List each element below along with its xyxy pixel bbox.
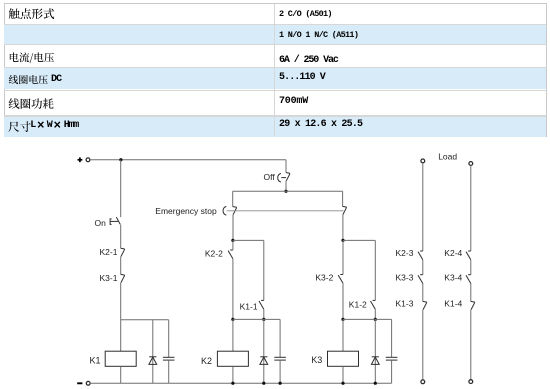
node K3 diode rail junction <box>374 382 377 385</box>
wire K2 bypass top <box>233 240 264 300</box>
wire K1 cap branch lower <box>168 360 170 383</box>
coil K1 <box>105 351 136 366</box>
wire estop right drop <box>342 191 344 206</box>
contact K2-4 <box>466 251 471 260</box>
label Off <box>264 172 276 182</box>
load terminal bottom-left <box>421 380 425 384</box>
capacitor C2 <box>274 357 286 360</box>
table column divider <box>274 4 275 136</box>
contact K2-3 <box>418 251 423 260</box>
load terminal top-right <box>469 162 473 166</box>
label K3-3 <box>396 272 414 282</box>
diode D1 <box>149 357 157 365</box>
label On <box>95 218 107 228</box>
node K2 cap rail junction <box>279 382 282 385</box>
wire coil K2 to rail <box>232 366 234 383</box>
svg-text:K2: K2 <box>201 356 212 366</box>
wire Off drop <box>285 160 287 173</box>
wire estop left lower <box>232 215 234 241</box>
label K1-4 <box>444 299 462 309</box>
node K2 snubber junction <box>231 318 234 321</box>
svg-text:K2-2: K2-2 <box>205 249 223 259</box>
svg-text:K1-3: K1-3 <box>396 299 414 309</box>
label Emergency stop <box>155 206 217 216</box>
wire K2 coil upper <box>232 240 234 351</box>
label K2-2 <box>205 249 223 259</box>
svg-text:Load: Load <box>438 151 457 161</box>
node K1-1 junction <box>262 318 265 321</box>
diode D3 <box>371 357 379 365</box>
svg-text:Off: Off <box>264 172 276 182</box>
contact K1-1 <box>259 300 264 309</box>
svg-text:K1-2: K1-2 <box>349 300 367 310</box>
wire K2 snubber branch <box>233 318 280 320</box>
wire K2 cap branch upper <box>279 319 281 357</box>
contact emergency stop right pole <box>343 206 347 214</box>
pushbutton On <box>110 217 120 224</box>
wire K2 diode branch <box>263 319 265 383</box>
label K2-3 <box>396 248 414 258</box>
label K2-1 <box>100 247 118 257</box>
wire On to K2-1 <box>120 224 122 248</box>
node top-left junction <box>119 158 122 161</box>
label K3-2 <box>315 273 333 283</box>
wire K2-2 lower <box>232 259 234 320</box>
svg-text:Emergency stop: Emergency stop <box>155 206 217 216</box>
contact K3-3 <box>418 275 423 284</box>
node K2 top junction <box>231 239 234 242</box>
wire K2-4 to K3-4 <box>470 260 472 275</box>
estop actuator link <box>223 206 343 215</box>
contact K2-1 <box>121 248 125 256</box>
contact K3-4 <box>466 275 471 284</box>
contact K1-2 <box>371 300 376 309</box>
capacitor C1 <box>163 357 175 360</box>
label Load <box>438 151 457 161</box>
svg-text:K3-1: K3-1 <box>100 273 118 283</box>
wire K3-2 lower <box>342 283 344 319</box>
minus terminal <box>77 381 90 385</box>
coil K3 <box>328 351 359 366</box>
contact K2-2 <box>228 250 233 259</box>
svg-text:K2-1: K2-1 <box>100 247 118 257</box>
plus terminal <box>78 157 90 162</box>
contact K3-1 <box>121 274 125 282</box>
diode D2 <box>260 357 268 365</box>
wire K3-3 to K1-3 <box>422 284 424 302</box>
wire coil K3 to rail <box>342 366 344 383</box>
wire estop right lower <box>342 215 344 241</box>
svg-text:K3-2: K3-2 <box>315 273 333 283</box>
label K1 <box>90 356 101 366</box>
svg-text:K3-4: K3-4 <box>444 272 462 282</box>
wire K1-2 lower <box>374 309 376 319</box>
wire estop top line <box>233 190 343 192</box>
load terminal bottom-right <box>469 380 473 384</box>
label K3-4 <box>444 272 462 282</box>
wire K1-1 lower <box>263 309 265 319</box>
capacitor C3 <box>386 357 398 360</box>
svg-text:K1: K1 <box>90 356 101 366</box>
svg-text:K3: K3 <box>311 355 322 365</box>
wire load-left lower <box>422 310 424 380</box>
wire K3 cap branch lower <box>391 360 393 383</box>
contact K3-2 <box>338 275 343 284</box>
wire K3-1 to coil K1 <box>120 283 122 352</box>
label K3 <box>311 355 322 365</box>
svg-text:K1-4: K1-4 <box>444 299 462 309</box>
coil K2 <box>217 351 248 366</box>
wire K1 diode branch <box>152 320 154 383</box>
svg-text:K2-3: K2-3 <box>396 248 414 258</box>
contact K1-3 <box>423 301 427 309</box>
label K3-1 <box>100 273 118 283</box>
label K2-4 <box>444 248 462 258</box>
node K3 snubber junction <box>341 318 344 321</box>
wire top rail <box>90 159 286 161</box>
node K3 top junction <box>341 239 344 242</box>
wire K1 cap branch upper <box>168 320 170 358</box>
wire left branch upper <box>120 160 122 217</box>
node K3 rail junction <box>341 382 344 385</box>
wire K2 cap branch lower <box>279 360 281 383</box>
svg-text:K1-1: K1-1 <box>240 301 258 311</box>
contact emergency stop left pole <box>233 207 237 215</box>
svg-text:K2-4: K2-4 <box>444 248 462 258</box>
load terminal top-left <box>421 159 425 163</box>
node K2 rail junction <box>231 382 234 385</box>
node Off junction <box>284 190 287 193</box>
wire K2-3 to K3-3 <box>422 260 424 275</box>
wire coil K1 to rail <box>120 366 122 383</box>
contact K1-4 <box>471 301 475 309</box>
wire K3 coil upper <box>342 240 344 351</box>
wire load-right lower <box>470 310 472 380</box>
wire bottom rail <box>90 382 391 384</box>
label K1-3 <box>396 299 414 309</box>
wire K3 diode branch <box>374 319 376 383</box>
node K1-2 junction <box>374 318 377 321</box>
wire K3 snubber branch <box>343 318 392 320</box>
table left column CJK text <box>0 0 550 140</box>
wire load-left upper <box>422 163 424 251</box>
wire K3 bypass top <box>343 240 375 300</box>
wire K3-4 to K1-4 <box>470 284 472 302</box>
label K2 <box>201 356 212 366</box>
wire K1 snubber branch <box>121 319 169 321</box>
pushbutton Off <box>278 173 290 182</box>
wire load-right upper <box>470 165 472 251</box>
node K2 diode rail junction <box>262 382 265 385</box>
wire Off to estop line <box>285 181 287 191</box>
table ASCII text <box>51 74 61 85</box>
spec table frame <box>4 3 547 137</box>
wire estop left drop <box>232 191 234 206</box>
svg-text:On: On <box>95 218 107 228</box>
label K1-1 <box>240 301 258 311</box>
label K1-2 <box>349 300 367 310</box>
wire K2-1 to K3-1 <box>120 257 122 275</box>
svg-text:K3-3: K3-3 <box>396 272 414 282</box>
wire K3 cap branch upper <box>391 319 393 357</box>
